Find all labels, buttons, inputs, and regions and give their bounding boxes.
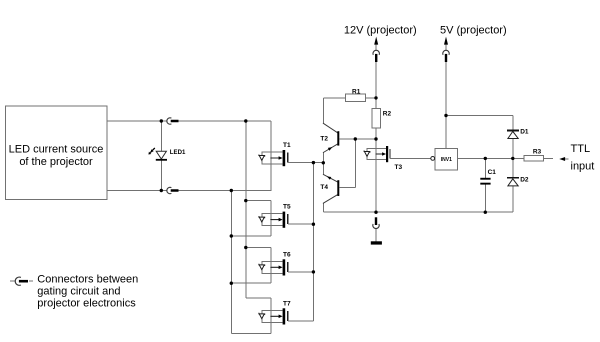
svg-text:T2: T2 <box>320 136 328 143</box>
svg-text:T4: T4 <box>320 184 328 191</box>
svg-text:LED1: LED1 <box>170 149 186 156</box>
svg-text:LED current source: LED current source <box>9 144 104 156</box>
svg-text:T7: T7 <box>283 300 291 307</box>
svg-text:T3: T3 <box>395 164 403 171</box>
svg-text:D1: D1 <box>520 128 529 135</box>
svg-text:gating circuit and: gating circuit and <box>37 286 120 298</box>
svg-text:TTL: TTL <box>571 143 591 155</box>
svg-text:R1: R1 <box>352 89 361 96</box>
svg-text:12V (projector): 12V (projector) <box>344 25 417 37</box>
svg-text:input: input <box>571 160 595 172</box>
svg-text:T6: T6 <box>283 251 291 258</box>
svg-text:T1: T1 <box>283 142 291 149</box>
svg-text:projector electronics: projector electronics <box>37 298 136 310</box>
svg-text:5V (projector): 5V (projector) <box>440 25 507 37</box>
svg-text:R3: R3 <box>533 148 542 155</box>
svg-text:Connectors between: Connectors between <box>37 274 138 286</box>
svg-text:T5: T5 <box>283 204 291 211</box>
svg-text:R2: R2 <box>383 111 392 118</box>
svg-text:of the projector: of the projector <box>19 156 93 168</box>
svg-text:INV1: INV1 <box>441 157 452 163</box>
svg-text:D2: D2 <box>520 177 529 184</box>
svg-text:C1: C1 <box>488 169 497 176</box>
